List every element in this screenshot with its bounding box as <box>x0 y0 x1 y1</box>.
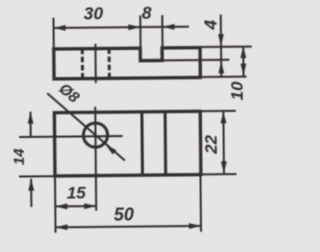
arrow 8 right outside <box>163 24 175 30</box>
svg-text:10: 10 <box>227 81 246 101</box>
svg-text:8: 8 <box>142 3 152 23</box>
svg-text:30: 30 <box>84 3 104 23</box>
dim line 50 <box>55 226 200 227</box>
arrow 50 right <box>189 223 201 229</box>
arrow 30 left <box>54 25 66 31</box>
extension line notch right <box>161 15 163 48</box>
dim line 10 <box>242 46 244 76</box>
arrow 22 up <box>220 111 226 123</box>
right extension down <box>199 175 202 232</box>
svg-text:15: 15 <box>67 183 87 202</box>
arrow 22 down <box>221 161 227 173</box>
bottom edge left extension <box>19 175 55 177</box>
arrow 14 upper <box>28 112 34 124</box>
leader line for dia 8 <box>47 93 125 162</box>
arrow 4 up (below notch line) <box>218 61 224 73</box>
arrow 14 lower <box>28 179 34 191</box>
hole horizontal centerline <box>19 135 122 138</box>
left extension down <box>54 176 57 233</box>
arrow 15 left <box>55 203 67 209</box>
leader arrowhead <box>105 144 116 154</box>
dimension line 30 and 8 <box>54 27 189 28</box>
dim line 4 vertical <box>220 15 223 77</box>
front view outline with notch <box>54 48 201 79</box>
hidden hole line right (dashed) <box>108 48 111 78</box>
dim 14 upper segment <box>29 112 31 137</box>
hole circle <box>83 123 107 147</box>
dim line 22 <box>222 111 225 173</box>
bottom edge right extension <box>200 76 246 78</box>
dim line 15 <box>55 205 96 207</box>
notch projection line 1 <box>140 112 144 175</box>
arrow 10 down <box>241 64 247 76</box>
svg-text:4: 4 <box>200 19 220 30</box>
top edge right extension <box>200 46 252 48</box>
arrow 30 right / 8 left <box>128 24 140 30</box>
notch projection line 2 <box>164 112 168 175</box>
svg-text:50: 50 <box>114 204 134 224</box>
top edge right extension (bottom view) <box>200 110 236 112</box>
bottom view rectangle <box>54 111 201 176</box>
arrow 4 down <box>218 34 224 46</box>
svg-text:22: 22 <box>202 134 221 155</box>
hidden hole line left (dashed) <box>81 49 84 79</box>
dim 14 lower segment <box>30 179 32 207</box>
extension line notch left <box>139 15 141 48</box>
extension line left (dim 30) <box>52 18 54 49</box>
svg-text:14: 14 <box>11 148 28 166</box>
bottom edge right extension (bottom view) <box>201 173 237 175</box>
arrow 10 up <box>240 46 246 58</box>
notch bottom extension line <box>162 59 229 62</box>
arrow 15 right <box>84 203 96 209</box>
arrow 50 left <box>55 224 67 230</box>
front view hole centerline <box>94 44 96 83</box>
hole vertical centerline <box>94 107 97 211</box>
